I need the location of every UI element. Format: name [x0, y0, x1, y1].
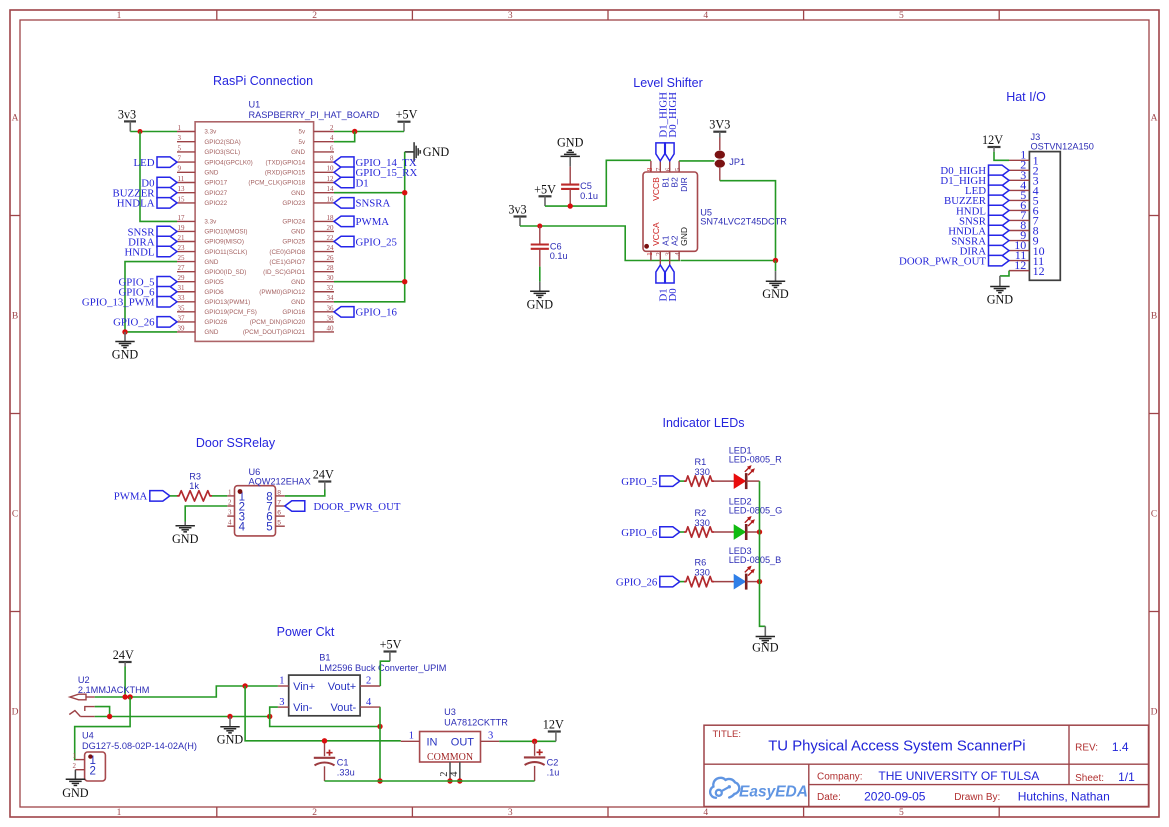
svg-text:7: 7 — [277, 499, 281, 506]
net flag GPIO_25 (U1 pin 22) — [334, 236, 397, 248]
svg-text:29: 29 — [178, 274, 186, 282]
svg-text:32: 32 — [327, 284, 335, 292]
svg-text:GPIO23: GPIO23 — [282, 200, 305, 207]
svg-text:1: 1 — [409, 731, 414, 742]
svg-text:TU Physical Access System Scan: TU Physical Access System ScannerPi — [768, 739, 1025, 755]
svg-text:(PCM_DIN)GPIO20: (PCM_DIN)GPIO20 — [250, 319, 306, 326]
wire R6 to LED3 — [714, 581, 734, 583]
svg-text:4: 4 — [228, 519, 232, 527]
svg-text:1: 1 — [73, 752, 77, 760]
svg-text:9: 9 — [178, 165, 182, 173]
svg-text:22: 22 — [327, 234, 335, 242]
svg-text:RASPBERRY_PI_HAT_BOARD: RASPBERRY_PI_HAT_BOARD — [249, 110, 380, 120]
power flag 3V3 (above JP1) — [709, 118, 730, 132]
wire jack ring to sleeve rail — [95, 707, 110, 717]
svg-text:330: 330 — [695, 567, 710, 577]
svg-text:EasyEDA: EasyEDA — [739, 784, 808, 801]
svg-text:20: 20 — [327, 224, 335, 232]
net flag D1_HIGH (J3 pin 3) — [940, 175, 1009, 187]
svg-text:34: 34 — [327, 294, 335, 302]
LED LED1 LED-0805_R — [729, 446, 782, 490]
svg-text:DOOR_PWR_OUT: DOOR_PWR_OUT — [899, 255, 986, 267]
svg-text:PWMA: PWMA — [114, 491, 148, 503]
net flag LED (J3 pin 4) — [965, 185, 1009, 197]
resistor R2 330 — [684, 508, 714, 537]
resistor R1 330 — [684, 457, 714, 486]
svg-text:UA7812CKTTR: UA7812CKTTR — [444, 718, 508, 728]
ground GND (power mid) — [217, 717, 244, 747]
svg-text:(PWM0)GPIO12: (PWM0)GPIO12 — [259, 289, 305, 296]
svg-text:COMMON: COMMON — [427, 752, 473, 763]
wire LED1 cathode to GND rail — [746, 480, 759, 482]
svg-text:Company:: Company: — [817, 772, 863, 783]
svg-text:5: 5 — [899, 11, 904, 21]
wire B1 Vin- to sleeve rail and GND row — [270, 707, 380, 726]
net flag D1 (U5 pin 2) — [656, 265, 670, 302]
svg-text:GND: GND — [527, 297, 554, 311]
svg-text:GPIO3(SCL): GPIO3(SCL) — [204, 149, 240, 156]
svg-text:0.1u: 0.1u — [550, 251, 568, 261]
wire GPIO_5 to R1 — [680, 480, 684, 482]
svg-text:D: D — [1151, 708, 1158, 718]
svg-text:U1: U1 — [249, 100, 261, 110]
svg-text:2.1MMJACKTHM: 2.1MMJACKTHM — [78, 685, 149, 695]
svg-text:2: 2 — [312, 11, 317, 21]
svg-text:1.4: 1.4 — [1112, 740, 1129, 754]
wire J3 pin 12 to GND — [1000, 271, 1009, 276]
wire +5V rail to U5 pin 8 (VCCB) — [545, 160, 651, 206]
svg-text:38: 38 — [327, 314, 335, 322]
junction Vout- rail at bottom rail — [377, 778, 382, 783]
svg-text:GND: GND — [172, 532, 199, 546]
svg-text:(CE1)GPIO7: (CE1)GPIO7 — [269, 259, 305, 266]
svg-text:13: 13 — [178, 185, 186, 193]
svg-text:GPIO19(PCM_FS): GPIO19(PCM_FS) — [204, 309, 256, 316]
ground GND (below U1) — [112, 332, 139, 361]
svg-text:23: 23 — [178, 244, 186, 252]
svg-text:1k: 1k — [189, 481, 199, 491]
svg-text:R2: R2 — [695, 508, 707, 518]
section title "Level Shifter" — [633, 76, 702, 90]
net flag D0_HIGH (U5 pin 6) — [665, 92, 679, 161]
svg-text:LED-0805_B: LED-0805_B — [729, 555, 782, 565]
net flag D0 (U5 pin 3) — [665, 265, 679, 302]
net flag LED (U1 pin 7) — [134, 157, 178, 169]
svg-text:.33u: .33u — [337, 767, 355, 777]
svg-text:Sheet:: Sheet: — [1075, 773, 1104, 784]
ground GND (below LEDs) — [752, 626, 779, 654]
wire jack tip to B1 Vin+ — [95, 686, 278, 697]
svg-text:5: 5 — [899, 808, 904, 818]
svg-text:Indicator LEDs: Indicator LEDs — [663, 416, 745, 430]
svg-text:+5V: +5V — [380, 638, 402, 652]
svg-text:(PCM_DOUT)GPIO21: (PCM_DOUT)GPIO21 — [243, 329, 306, 336]
wire GPIO_6 to R2 — [680, 531, 684, 533]
svg-text:U3: U3 — [444, 707, 456, 717]
net flag GPIO_13_PWM (U1 pin 33) — [82, 297, 177, 309]
svg-text:Vout+: Vout+ — [328, 681, 356, 693]
svg-text:+5V: +5V — [534, 182, 556, 196]
ground GND (below J3) — [987, 276, 1014, 307]
svg-text:19: 19 — [178, 224, 186, 232]
svg-text:LM2596 Buck Converter_UPIM: LM2596 Buck Converter_UPIM — [319, 663, 446, 673]
net flag DOOR_PWR_OUT (U6 pin 7) — [285, 501, 401, 513]
svg-text:5: 5 — [277, 520, 281, 527]
svg-text:8: 8 — [330, 155, 334, 163]
svg-text:Hat I/O: Hat I/O — [1006, 90, 1046, 104]
net flag D1 (U1 pin 12) — [334, 177, 369, 189]
svg-text:IN: IN — [427, 737, 438, 749]
resistor R3 1k — [177, 472, 212, 502]
svg-text:JP1: JP1 — [729, 157, 745, 167]
svg-text:(TXD)GPIO14: (TXD)GPIO14 — [266, 159, 306, 166]
power flag 3v3 (level shifter) — [508, 203, 526, 217]
power flag 24V (U6 pin 8) — [313, 468, 334, 482]
svg-text:U4: U4 — [82, 731, 94, 741]
svg-text:R6: R6 — [695, 558, 707, 568]
svg-text:15: 15 — [178, 195, 186, 203]
wire 24V down to jack rail — [124, 667, 126, 698]
power flag +5V (level shifter) — [534, 182, 556, 196]
svg-text:28: 28 — [327, 264, 335, 272]
svg-text:4: 4 — [703, 808, 708, 818]
net flag BUZZER (U1 pin 13) — [113, 187, 178, 199]
ground GND (right of U5) — [775, 261, 777, 272]
net flag HNDL (J3 pin 6) — [956, 205, 1009, 217]
net flag GPIO_6 (to R2) — [621, 527, 680, 539]
svg-text:2: 2 — [366, 676, 371, 687]
svg-text:GPIO6: GPIO6 — [204, 289, 224, 296]
wire 3v3 to U1 pin 1 — [130, 131, 177, 133]
svg-text:DIR: DIR — [679, 177, 689, 192]
svg-text:GND: GND — [752, 640, 779, 654]
power flag 12V (J3 pin 1) — [982, 133, 1003, 147]
svg-text:OSTVN12A150: OSTVN12A150 — [1031, 141, 1094, 151]
net flag PWMA (to R3) — [114, 491, 170, 503]
svg-text:C5: C5 — [580, 181, 592, 191]
capacitor C2 .1u — [524, 741, 559, 781]
wire U6 pin 8 to 24V — [285, 490, 325, 496]
wire Vin+ branch down to U3 IN — [245, 686, 401, 741]
junction GND rail (right of U5) — [773, 258, 778, 263]
svg-text:+5V: +5V — [396, 108, 418, 122]
wire 3v3 to U5 pin 1 (VCCA) — [520, 226, 680, 261]
svg-text:GND: GND — [291, 279, 305, 286]
svg-text:2: 2 — [330, 124, 334, 132]
junction B1 Vin- at sleeve rail — [267, 714, 272, 719]
svg-text:21: 21 — [178, 234, 186, 242]
svg-text:GND: GND — [291, 149, 305, 156]
wire 12V to J3 pin 1 — [994, 152, 1009, 161]
power flag 12V (U3 OUT) — [543, 718, 564, 732]
svg-text:39: 39 — [178, 324, 186, 332]
svg-text:2: 2 — [73, 762, 77, 770]
svg-text:GND: GND — [204, 259, 218, 266]
svg-text:GND: GND — [217, 732, 244, 746]
svg-text:GPIO_26: GPIO_26 — [113, 317, 155, 329]
svg-text:R3: R3 — [189, 472, 201, 482]
net flag D0 (U1 pin 11) — [141, 177, 177, 189]
junction U3 pin 4 at bottom rail — [457, 778, 462, 783]
svg-text:25: 25 — [178, 254, 186, 262]
svg-text:4: 4 — [239, 522, 246, 534]
svg-text:(RXD)GPIO15: (RXD)GPIO15 — [265, 170, 306, 177]
svg-text:GPIO_6: GPIO_6 — [621, 527, 658, 539]
svg-text:GPIO_13_PWM: GPIO_13_PWM — [82, 297, 155, 309]
svg-text:6: 6 — [277, 510, 281, 517]
junction at U1 pin 1 — [138, 129, 143, 134]
junction C1 at U3 IN row — [322, 738, 327, 743]
power flag +5V (U1 pin 2) — [396, 108, 418, 122]
svg-text:GND: GND — [291, 229, 305, 236]
svg-text:1: 1 — [646, 252, 654, 256]
svg-text:5: 5 — [674, 167, 682, 171]
junction at +5V branch — [352, 129, 357, 134]
wire U1 pin 14 to GND rail — [334, 192, 405, 194]
regulator U3 UA7812CKTTR — [401, 707, 508, 781]
svg-text:GND: GND — [679, 227, 689, 246]
power flag +5V (B1 Vout+) — [380, 638, 402, 652]
svg-text:3: 3 — [178, 134, 182, 142]
svg-text:5: 5 — [266, 522, 272, 534]
svg-text:1/1: 1/1 — [1118, 770, 1135, 784]
svg-text:12: 12 — [1033, 264, 1045, 278]
wire U5 DIR (pin 5) to JP1 — [679, 160, 714, 162]
svg-text:18: 18 — [327, 214, 335, 222]
svg-text:(ID_SC)GPIO1: (ID_SC)GPIO1 — [263, 269, 305, 276]
svg-text:30: 30 — [327, 274, 335, 282]
svg-text:0.1u: 0.1u — [580, 191, 598, 201]
svg-text:D: D — [12, 708, 19, 718]
module B1 LM2596 Buck Converter_UPIM — [278, 653, 447, 716]
wire U1 pin 30 to GND rail — [334, 281, 405, 283]
junction 3v3 / C6 — [537, 224, 542, 229]
svg-text:D0: D0 — [667, 288, 679, 301]
svg-text:B: B — [1151, 312, 1157, 322]
junction at U1 pin 14 — [402, 190, 407, 195]
svg-text:GPIO11(SCLK): GPIO11(SCLK) — [204, 249, 247, 256]
svg-text:1: 1 — [228, 488, 232, 496]
svg-text:(CE0)GPIO8: (CE0)GPIO8 — [269, 249, 305, 256]
svg-text:24V: 24V — [313, 468, 334, 482]
net flag GPIO_26 (to R6) — [616, 576, 680, 588]
wire R2 to LED2 — [714, 531, 734, 533]
svg-text:24: 24 — [327, 244, 335, 252]
svg-text:GND: GND — [987, 293, 1014, 307]
svg-text:2: 2 — [228, 498, 232, 506]
svg-text:5: 5 — [178, 144, 182, 152]
svg-text:GND: GND — [423, 145, 450, 159]
svg-text:RasPi Connection: RasPi Connection — [213, 74, 313, 88]
IC U6 AQW212EHAX — [227, 467, 310, 536]
junction at U1 pin 30 — [402, 279, 407, 284]
power flag 3v3 (U1 pin 1) — [118, 107, 136, 121]
capacitor C6 0.1u — [531, 226, 568, 282]
svg-text:1: 1 — [117, 11, 122, 21]
section title "Hat I/O" — [1006, 90, 1046, 104]
svg-text:330: 330 — [695, 467, 710, 477]
wire R3 to U6 pin 1 — [212, 495, 227, 497]
svg-text:LED-0805_R: LED-0805_R — [729, 455, 782, 465]
svg-text:3v3: 3v3 — [118, 107, 136, 121]
svg-text:SN74LVC2T45DCTR: SN74LVC2T45DCTR — [700, 216, 787, 226]
svg-text:4: 4 — [703, 11, 708, 21]
svg-text:7: 7 — [178, 155, 182, 163]
svg-text:7: 7 — [655, 167, 663, 171]
connector U4 DG127-5.08-02P-14-02A(H) — [73, 731, 197, 782]
junction at LED2 cathode rail — [757, 529, 762, 534]
svg-text:3.3v: 3.3v — [204, 219, 217, 226]
svg-text:THE UNIVERSITY OF TULSA: THE UNIVERSITY OF TULSA — [878, 769, 1039, 783]
svg-text:GPIO27: GPIO27 — [204, 190, 227, 197]
svg-text:5v: 5v — [298, 129, 306, 136]
net flag HNDLA (U1 pin 15) — [117, 198, 177, 210]
IC U1 RASPBERRY_PI_HAT_BOARD — [177, 100, 380, 342]
svg-text:GND: GND — [62, 786, 89, 800]
net flag DIRA (J3 pin 10) — [960, 245, 1009, 257]
wire PWMA to R3 — [170, 495, 177, 497]
svg-text:3V3: 3V3 — [709, 118, 730, 132]
wire U3 OUT to 12V — [499, 740, 556, 742]
net flag D1_HIGH (U5 pin 7) — [656, 92, 670, 161]
svg-text:GPIO_5: GPIO_5 — [621, 476, 657, 488]
svg-text:6: 6 — [330, 144, 334, 152]
svg-text:3: 3 — [665, 252, 673, 256]
svg-text:HNDL: HNDL — [125, 246, 155, 258]
svg-text:17: 17 — [178, 214, 186, 222]
svg-text:3: 3 — [508, 808, 513, 818]
svg-text:5v: 5v — [298, 139, 306, 146]
ground GND (above C5) — [557, 135, 584, 156]
svg-text:C2: C2 — [547, 758, 559, 768]
net flag HNDL (U1 pin 23) — [125, 246, 178, 258]
net flag GPIO_5 (to R1) — [621, 476, 680, 488]
svg-text:Date:: Date: — [817, 792, 841, 803]
junction at U1 pin 39 — [122, 329, 127, 334]
svg-text:3: 3 — [488, 731, 493, 742]
svg-text:D1: D1 — [356, 177, 369, 189]
net flag GPIO_26 (U1 pin 37) — [113, 317, 177, 329]
svg-text:4: 4 — [674, 252, 682, 256]
svg-text:Vin-: Vin- — [293, 702, 313, 714]
ground flag GND (right of U1) — [405, 142, 450, 161]
svg-text:DOOR_PWR_OUT: DOOR_PWR_OUT — [314, 501, 401, 513]
connector J3 OSTVN12A150 — [1009, 132, 1094, 280]
net flag SNSRA (J3 pin 9) — [951, 235, 1009, 247]
net flag HNDLA (J3 pin 8) — [948, 225, 1009, 237]
svg-text:GPIO24: GPIO24 — [282, 219, 305, 226]
svg-text:GPIO22: GPIO22 — [204, 200, 227, 207]
svg-text:GND: GND — [557, 135, 584, 149]
net flag GPIO_16 (U1 pin 36) — [334, 307, 397, 319]
wire B1 Vout- to bottom GND rail — [379, 707, 381, 781]
svg-text:GND: GND — [204, 329, 218, 336]
svg-text:A: A — [12, 114, 19, 124]
capacitor C1 .33u — [314, 741, 355, 781]
svg-text:Power Ckt: Power Ckt — [277, 625, 335, 639]
svg-text:GPIO_26: GPIO_26 — [616, 576, 658, 588]
svg-text:D0_HIGH: D0_HIGH — [667, 92, 679, 138]
jumper JP1 — [715, 151, 746, 168]
svg-text:SNSRA: SNSRA — [356, 198, 391, 210]
junction U4 branch at jack rail — [127, 694, 132, 699]
svg-text:GND: GND — [204, 170, 218, 177]
svg-text:GND: GND — [291, 299, 305, 306]
svg-text:OUT: OUT — [451, 737, 475, 749]
svg-text:2: 2 — [655, 252, 663, 256]
svg-text:.1u: .1u — [547, 767, 560, 777]
svg-text:8: 8 — [277, 489, 281, 496]
svg-text:GND: GND — [112, 347, 139, 361]
svg-text:TITLE:: TITLE: — [713, 729, 742, 740]
svg-text:12V: 12V — [982, 133, 1003, 147]
wire 24V branch to U4 pin 1 — [75, 697, 130, 760]
junction jack ring/sleeve — [107, 714, 112, 719]
svg-text:4: 4 — [449, 771, 460, 777]
net flag GPIO_6 (U1 pin 31) — [119, 287, 178, 299]
svg-text:10: 10 — [327, 165, 335, 173]
net flag D0_HIGH (J3 pin 2) — [940, 165, 1009, 177]
svg-text:GPIO0(ID_SD): GPIO0(ID_SD) — [204, 269, 246, 276]
svg-text:Door SSRelay: Door SSRelay — [196, 436, 276, 450]
wire bottom GND rail — [325, 780, 535, 782]
wire GND rail (U1 pins 14/30/34) — [334, 152, 405, 302]
svg-text:12: 12 — [1014, 258, 1026, 272]
wire U4 pin 2 to GND — [74, 770, 76, 779]
section title "RasPi Connection" — [213, 74, 313, 88]
wire JP1 to GND rail — [719, 168, 721, 181]
svg-text:1: 1 — [178, 124, 182, 132]
svg-text:8: 8 — [646, 167, 654, 171]
svg-text:REV:: REV: — [1075, 743, 1098, 754]
svg-text:GPIO4(GPCLK0): GPIO4(GPCLK0) — [204, 159, 252, 166]
svg-text:GPIO10(MOSI): GPIO10(MOSI) — [204, 229, 247, 236]
wire R1 to LED1 — [714, 480, 734, 482]
svg-text:GPIO17: GPIO17 — [204, 180, 227, 187]
svg-text:3: 3 — [508, 11, 513, 21]
junction GND stem at sleeve rail — [227, 714, 232, 719]
svg-text:36: 36 — [327, 304, 335, 312]
junction at B1 Vin+ branch — [242, 683, 247, 688]
IC U5 SN74LVC2T45DCTR — [643, 161, 787, 265]
svg-text:Vout-: Vout- — [331, 702, 357, 714]
svg-text:AQW212EHAX: AQW212EHAX — [249, 477, 311, 487]
connector U2 2.1MMJACKTHM — [69, 675, 149, 717]
net flag SNSR (U1 pin 19) — [127, 226, 177, 238]
svg-text:GPIO25: GPIO25 — [282, 239, 305, 246]
svg-text:Hutchins, Nathan: Hutchins, Nathan — [1018, 790, 1110, 804]
svg-text:B: B — [12, 312, 18, 322]
svg-text:LED-0805_G: LED-0805_G — [729, 505, 783, 515]
svg-text:Vin+: Vin+ — [293, 681, 315, 693]
svg-text:GPIO16: GPIO16 — [282, 309, 305, 316]
junction Vout- rail at GND row — [377, 724, 382, 729]
svg-text:40: 40 — [327, 324, 335, 332]
svg-text:(PCM_CLK)GPIO18: (PCM_CLK)GPIO18 — [248, 180, 305, 187]
svg-text:PWMA: PWMA — [356, 216, 390, 228]
svg-text:Level Shifter: Level Shifter — [633, 76, 702, 90]
ground GND (below U4) — [62, 779, 89, 800]
ground GND (below U6 pin 2) — [172, 522, 199, 546]
wire LED3 cathode to GND rail — [746, 581, 759, 583]
capacitor C5 0.1u — [561, 167, 598, 206]
svg-text:6: 6 — [665, 167, 673, 171]
net flag GPIO_14_TX (U1 pin 8) — [334, 157, 417, 169]
wire LED2 cathode to GND rail — [746, 531, 759, 533]
junction at LED3 cathode rail — [757, 579, 762, 584]
net flag SNSRA (U1 pin 16) — [334, 198, 391, 210]
svg-text:3.3v: 3.3v — [204, 129, 217, 136]
